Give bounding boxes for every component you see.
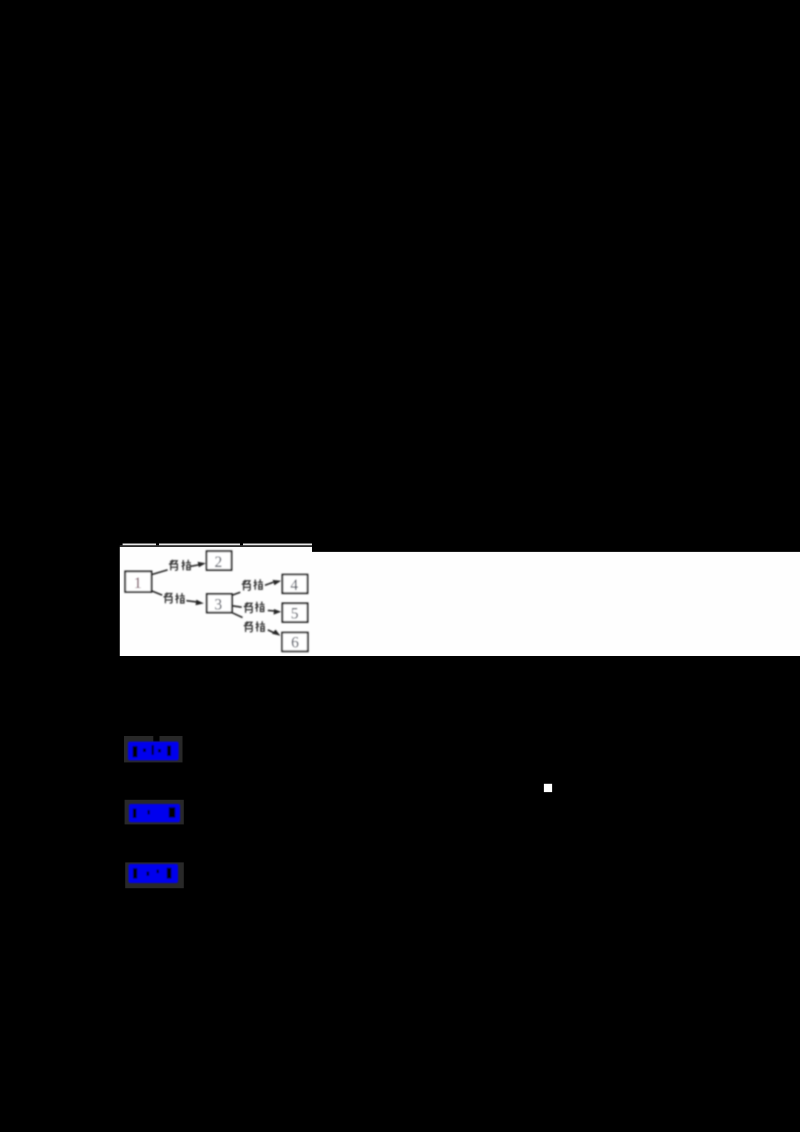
svg-text:2: 2 <box>215 554 223 571</box>
node box 6 <box>282 633 308 652</box>
image white background (right part, starts lower) <box>312 552 800 656</box>
white underline dash segment 1 <box>123 544 156 546</box>
answer label 1 halo <box>124 736 183 762</box>
label D bao <box>244 603 252 613</box>
embedded exam image: white background band, full width under transparency <box>120 544 800 657</box>
arrow label E to box6 <box>268 630 274 633</box>
arrow label D to box5 <box>268 609 275 612</box>
wire box3 to label D <box>232 606 241 607</box>
arrow label C to box4 <box>265 582 273 585</box>
dark rule line at image top <box>120 545 312 547</box>
wire box3 to label C <box>232 592 240 595</box>
svg-text:4: 4 <box>290 577 298 594</box>
svg-text:1: 1 <box>134 575 142 592</box>
answer label 3 (blue 【notes】) <box>129 864 179 883</box>
arrow label B to box3 <box>186 601 196 602</box>
node box 5 <box>282 603 307 622</box>
label A bao <box>169 560 177 570</box>
svg-text:3: 3 <box>214 596 222 613</box>
white underline dash segment 3 <box>243 544 312 546</box>
answer label 3 halo <box>125 862 184 888</box>
label C bao <box>242 580 250 590</box>
node box 2 <box>207 551 232 570</box>
label D kuo <box>255 602 264 612</box>
label C kuo <box>254 579 263 589</box>
answer label 2 halo <box>125 800 184 825</box>
label E kuo <box>256 621 265 631</box>
label B bao <box>164 593 172 603</box>
svg-text:6: 6 <box>291 635 299 652</box>
node box 1 <box>125 571 151 592</box>
svg-text:5: 5 <box>291 606 299 623</box>
wire box3 to label E <box>232 613 242 618</box>
diagram: concept map with boxes 1-6 <box>125 551 308 651</box>
arrow label A to box2 <box>191 565 199 566</box>
white underline dash segment 2 <box>159 544 240 546</box>
answer label 1 (blue 【answer】) <box>128 742 179 761</box>
answer label 2 (blue 【analysis】) <box>129 804 180 822</box>
label E bao <box>244 622 252 632</box>
wire box1 to label B <box>151 591 162 595</box>
white answer dot (hidden white text square) <box>544 784 552 792</box>
wire box1 to label A <box>152 570 168 575</box>
image white background (left part, taller) <box>120 547 312 656</box>
node box 3 <box>207 594 232 613</box>
label A kuo <box>182 560 191 570</box>
label B kuo <box>175 593 184 603</box>
node box 4 <box>282 575 307 594</box>
